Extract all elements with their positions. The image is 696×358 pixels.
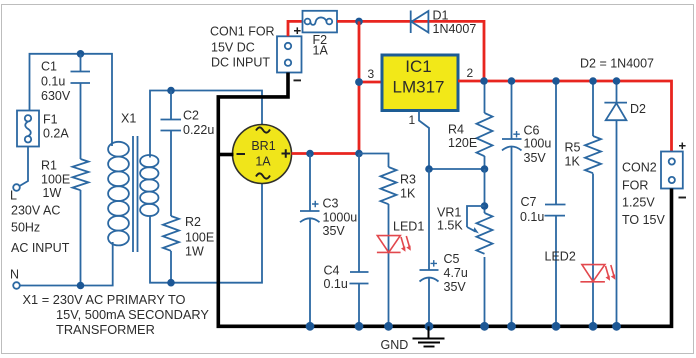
node: VR1 ground junction (480, 322, 489, 331)
resistor R4 (448, 81, 493, 169)
svg-text:C6: C6 (524, 124, 540, 138)
svg-text:3: 3 (368, 67, 375, 81)
svg-text:120E: 120E (448, 136, 477, 150)
svg-text:R4: R4 (448, 123, 464, 137)
node: F2/D1 junction (355, 18, 363, 26)
fuse F1 (17, 111, 69, 147)
node: C3 ground junction (306, 322, 315, 331)
node: C6 output junction (508, 77, 516, 85)
svg-text:1.25V: 1.25V (622, 196, 655, 210)
capacitor C4 (324, 154, 369, 327)
wire: CON1 plus to F2 (red) (288, 21, 303, 36)
wire: BR1 minus stub (218, 153, 233, 157)
svg-text:X1: X1 (121, 112, 136, 126)
svg-text:1A: 1A (313, 44, 329, 58)
node: C4 junction (355, 150, 363, 158)
svg-text:LM317: LM317 (393, 78, 445, 97)
svg-text:DC INPUT: DC INPUT (211, 56, 270, 70)
svg-text:100E: 100E (185, 231, 214, 245)
node: LED2 ground junction (589, 322, 598, 331)
node: R5 output junction (589, 77, 597, 85)
resistor R3 (381, 167, 417, 326)
svg-text:0.22u: 0.22u (183, 123, 214, 137)
svg-text:0.2A: 0.2A (43, 127, 69, 141)
svg-text:X1 = 230V AC PRIMARY TO: X1 = 230V AC PRIMARY TO (23, 292, 186, 307)
core (132, 136, 134, 252)
wire: BR1 plus to junction (red) (292, 152, 360, 155)
svg-text:N: N (10, 268, 19, 282)
svg-text:100u: 100u (524, 137, 552, 151)
node: pin3 junction (355, 78, 363, 86)
transformer X1 (108, 112, 158, 253)
svg-text:15V DC: 15V DC (211, 41, 255, 55)
svg-text:TRANSFORMER: TRANSFORMER (56, 322, 155, 337)
svg-text:0.1u: 0.1u (41, 75, 65, 89)
node N terminal (13, 282, 20, 289)
svg-text:1A: 1A (255, 155, 271, 169)
svg-text:R3: R3 (400, 173, 416, 187)
svg-text:0.1u: 0.1u (324, 277, 348, 291)
node: C3 junction (306, 150, 314, 158)
svg-text:F1: F1 (43, 113, 58, 127)
node: R2 bottom junction (167, 279, 175, 287)
bridge rectifier BR1 (233, 125, 292, 184)
svg-text:C5: C5 (444, 252, 460, 266)
svg-text:BR1: BR1 (251, 139, 275, 153)
svg-text:15V, 500mA SECONDARY: 15V, 500mA SECONDARY (56, 307, 209, 322)
wire: F1 to L terminal (20, 147, 29, 187)
node: D2 output junction (613, 77, 621, 85)
wire: N rail (20, 242, 113, 286)
wire: red vertical to BR1+ node (358, 21, 361, 153)
svg-text:L: L (10, 189, 17, 203)
svg-text:35V: 35V (444, 280, 467, 294)
svg-text:C7: C7 (521, 195, 537, 209)
node: VR1 top junction (481, 202, 489, 210)
svg-text:D2 = 1N4007: D2 = 1N4007 (580, 57, 654, 71)
resistor R2 (163, 215, 214, 283)
capacitor C3 (300, 154, 357, 327)
svg-text:C3: C3 (323, 197, 339, 211)
capacitor C1 (41, 54, 90, 159)
primary winding (108, 142, 129, 157)
node: LED1 ground junction (384, 322, 393, 331)
wire: CON1 minus black path (218, 73, 671, 327)
svg-text:630V: 630V (41, 89, 71, 103)
node: R4 bottom junction (481, 165, 489, 173)
LED2 (545, 250, 616, 282)
svg-text:35V: 35V (524, 151, 547, 165)
capacitor C5 (420, 169, 468, 326)
node: C5 ground junction (425, 322, 434, 331)
wire: R3 branch (359, 154, 389, 168)
svg-text:TO 15V: TO 15V (622, 213, 666, 227)
wire: pin1 jog (419, 111, 429, 170)
node: C7 ground junction (552, 322, 561, 331)
potentiometer VR1 (437, 206, 493, 327)
svg-text:CON2: CON2 (622, 161, 657, 175)
node: C7 output junction (552, 77, 560, 85)
svg-text:GND: GND (381, 338, 409, 352)
svg-text:D2: D2 (630, 102, 646, 116)
wire: secondary bottom rail (150, 184, 262, 283)
node: C6 ground junction (507, 322, 516, 331)
svg-text:D1: D1 (433, 9, 449, 23)
svg-text:LED2: LED2 (545, 250, 576, 264)
svg-text:C4: C4 (324, 264, 340, 278)
svg-text:C2: C2 (183, 109, 199, 123)
svg-text:R1: R1 (41, 159, 57, 173)
svg-text:VR1: VR1 (437, 206, 461, 220)
node: pin1 junction (425, 165, 433, 173)
resistor R5 (565, 81, 602, 326)
svg-text:1K: 1K (400, 187, 416, 201)
node: C2 top junction (167, 87, 175, 95)
svg-text:1W: 1W (185, 245, 204, 259)
diode D2 (604, 81, 646, 326)
svg-text:1W: 1W (43, 186, 62, 200)
svg-text:R2: R2 (185, 215, 201, 229)
svg-text:4.7u: 4.7u (444, 266, 468, 280)
wire: F2 to D1 to pin2 drop (red) (337, 21, 484, 81)
svg-text:1K: 1K (565, 155, 581, 169)
ground symbol (381, 326, 445, 352)
wire: pin1 to R4 bottom (429, 168, 485, 170)
svg-text:1: 1 (409, 113, 416, 127)
wire: left top rail (30, 54, 113, 146)
svg-text:R5: R5 (565, 141, 581, 155)
svg-text:230V AC: 230V AC (11, 204, 60, 218)
capacitor C2 (161, 91, 215, 217)
resistor R1 (41, 159, 89, 286)
svg-text:35V: 35V (323, 224, 346, 238)
svg-text:AC INPUT: AC INPUT (11, 241, 70, 255)
svg-text:2: 2 (467, 66, 474, 80)
node: C1 top junction (77, 50, 85, 58)
svg-text:CON1 FOR: CON1 FOR (210, 25, 275, 39)
svg-text:1000u: 1000u (323, 211, 358, 225)
fuse F2 (303, 11, 338, 58)
svg-text:0.1u: 0.1u (520, 210, 544, 224)
svg-text:100E: 100E (41, 173, 70, 187)
node: R1 bottom junction (77, 282, 85, 290)
node: D1/R4 output junction (480, 77, 488, 85)
diode D1 (411, 9, 477, 37)
secondary winding (140, 155, 158, 167)
connector CON1 (277, 27, 302, 80)
node: D2 ground junction (612, 322, 621, 331)
LED1 (377, 220, 424, 253)
svg-text:LED1: LED1 (393, 220, 424, 234)
svg-text:IC1: IC1 (405, 57, 431, 76)
capacitor C6 (502, 81, 551, 326)
wire: R4 to VR1 (484, 169, 486, 213)
capacitor C7 (520, 81, 566, 326)
IC U1 LM317 (355, 55, 473, 127)
svg-text:50Hz: 50Hz (11, 221, 40, 235)
connector CON2 (661, 143, 686, 198)
svg-text:C1: C1 (41, 60, 57, 74)
wire: pin2 output rail (red) (458, 81, 672, 152)
wire: secondary top rail (150, 91, 262, 158)
svg-text:1N4007: 1N4007 (433, 22, 477, 36)
node L terminal (13, 184, 20, 191)
node: C4 ground junction (355, 322, 364, 331)
svg-text:1.5K: 1.5K (437, 219, 463, 233)
svg-text:FOR: FOR (622, 179, 648, 193)
